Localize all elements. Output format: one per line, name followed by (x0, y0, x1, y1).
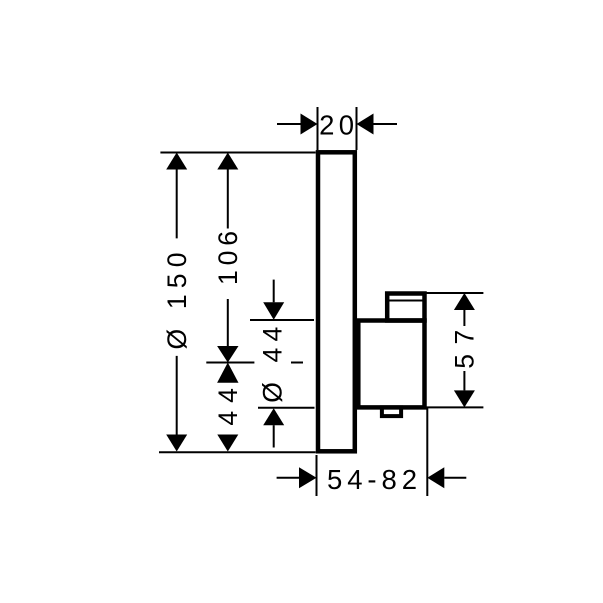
dim 57: line x=464.4 (454, 293, 475, 310)
dim 54-82: left tail + arrow (277, 477, 299, 479)
dim 20: extension lines (317, 107, 319, 150)
handle knob on top of body (387, 294, 424, 321)
dim 106 / 44: line x=227.8 (217, 153, 238, 170)
extension line body top (left) (250, 319, 314, 321)
extension line body bottom (left) (258, 407, 315, 409)
dim O150: line x=176.7 (166, 153, 187, 170)
knob cap line (386, 300, 423, 302)
valve body (358, 321, 424, 408)
svg-text:106: 106 (213, 231, 243, 285)
svg-text:Ø 150: Ø 150 (162, 253, 192, 350)
dim 57: extension lines (right) (424, 292, 483, 294)
svg-text:54-82: 54-82 (327, 464, 417, 495)
plate (escutcheon, 150x20 side view) (318, 152, 355, 451)
dim 20: right arrow + tail (357, 114, 374, 135)
bowtie arrows at center line (217, 346, 238, 363)
dim 54-82: right arrow + tail (427, 467, 444, 488)
extension line top of plate (left) (160, 152, 315, 154)
dim O44: line x=273.7 (273, 280, 275, 303)
center line of valve (left) (206, 362, 254, 364)
bottom tab (stop ring) (382, 407, 401, 416)
extension line bottom of plate (left) (159, 451, 316, 453)
dim 20: left tail + arrow (277, 123, 301, 125)
dim 54-82: extension lines (316, 455, 318, 496)
